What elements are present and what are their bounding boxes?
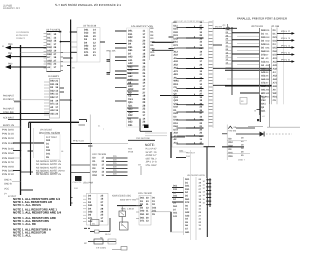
svg-text:ADDR DECODE LOGIC: ADDR DECODE LOGIC [112, 195, 131, 198]
diode D1 [260, 132, 265, 137]
svg-text:PIN 4: PIN 4 [281, 44, 291, 47]
wire y249.5 [112, 249, 121, 251]
svg-text:D02: D02 [46, 139, 51, 142]
svg-text:U4 6821: U4 6821 [48, 75, 60, 78]
wire bus to U4 y99.8 [21, 99, 50, 101]
svg-text:D61: D61 [173, 205, 178, 208]
wire y134 stub left [222, 133, 227, 135]
svg-text:NOTE 1. ALL RE: NOTE 1. ALL RE [13, 222, 36, 226]
svg-text:D31: D31 [185, 188, 190, 191]
svg-text:D61: D61 [174, 41, 179, 44]
connector J1 arrow 1 [5, 43, 21, 50]
wire y128 right [236, 127, 255, 129]
resistor R10 caret [228, 126, 232, 128]
wire dashed y134 [266, 133, 292, 135]
wire y93 dark [240, 92, 260, 94]
ic U4 outline [49, 78, 59, 118]
svg-text:J1 P&G: J1 P&G [3, 4, 12, 7]
svg-text:D71: D71 [140, 220, 145, 223]
wires to U20 gray [237, 35, 260, 37]
svg-text:RD1: RD1 [174, 83, 179, 86]
ic U2 inner divider [50, 32, 52, 71]
wire vertical x269.5 [269, 64, 271, 104]
solder dashes x84 [84, 227, 87, 229]
svg-text:PIN D6X: PIN D6X [2, 157, 15, 160]
svg-text:ADDR 0-7: ADDR 0-7 [146, 154, 158, 157]
wire bus to U2 y67 [21, 66, 47, 68]
wire J1 to bus y101.5 [14, 101, 21, 103]
connector J1 arrow 3 [5, 63, 21, 70]
svg-text:JP1 2-3: JP1 2-3 [146, 161, 158, 164]
wire bus to U2 y56.6 [21, 56, 47, 58]
ic U16 left rail [183, 177, 185, 235]
wire y152 gray [179, 151, 186, 153]
svg-text:D41: D41 [46, 153, 51, 156]
svg-text:NOTE 1. ALL RESISTORS ARE 1/4: NOTE 1. ALL RESISTORS ARE 1/4 [13, 211, 61, 215]
svg-text:A52: A52 [273, 75, 278, 78]
ic SW1 outline [172, 23, 209, 148]
connector J3 box [240, 98, 247, 105]
svg-text:A62: A62 [273, 78, 278, 81]
svg-text:D32: D32 [152, 206, 157, 209]
wire U5 to SW1 y50.3 [152, 49, 174, 51]
svg-text:RN1 10K: RN1 10K [107, 49, 117, 52]
wire vertical x207 lower [206, 207, 208, 237]
junction dot x70.6 y100 [70, 99, 72, 101]
svg-text:PB2: PB2 [8, 63, 13, 66]
ic U5 internal net wires [127, 65, 139, 67]
svg-text:A72: A72 [174, 70, 179, 73]
svg-text:U3 74LS138: U3 74LS138 [83, 25, 97, 28]
svg-text:NOTE 1. ALL RESIS: NOTE 1. ALL RESIS [13, 203, 41, 207]
bus ticks x72 [71, 197, 73, 199]
svg-text:VCC: VCC [4, 188, 9, 191]
svg-text:CA2 CTL: CA2 CTL [73, 181, 83, 184]
ic U20 left rail [259, 28, 261, 115]
svg-text:SCHEMATIC 1 OF 2: SCHEMATIC 1 OF 2 [3, 7, 21, 10]
wire y134 [236, 133, 260, 135]
wire vertical x171 upper [170, 132, 172, 158]
svg-text:SEE TBL 2: SEE TBL 2 [146, 157, 158, 160]
ic U2 outline [47, 32, 61, 72]
ic U21 left rail [271, 28, 273, 105]
wire y131.3 [140, 130, 152, 132]
ic U5 outline [127, 28, 149, 127]
svg-text:PIN D7X: PIN D7X [2, 161, 15, 164]
connector stack rung 1 [206, 179, 211, 181]
svg-text:CK1: CK1 [261, 103, 266, 106]
svg-text:N3 SIGNAL NOTE LN: N3 SIGNAL NOTE LN [36, 170, 61, 173]
wire stub y150 [13, 150, 21, 152]
wire y205.6 [117, 205, 142, 207]
svg-text:D31: D31 [173, 195, 178, 198]
wire rail x283.5 [283, 30, 285, 104]
svg-text:RD1: RD1 [266, 96, 271, 99]
svg-text:D01: D01 [185, 178, 190, 181]
ic U22 left rail [226, 125, 228, 161]
connector P1 arrow 1 [277, 30, 295, 35]
svg-text:D21: D21 [93, 164, 98, 167]
wire bus horizontal y122.3 [29, 121, 79, 123]
svg-text:A61: A61 [174, 67, 179, 70]
wire bus vertical x232 [231, 27, 233, 95]
wire vertical x207 upper [206, 147, 208, 179]
wire tick y65.6 [67, 65, 71, 67]
ic U11 pin stubs left [83, 195, 86, 197]
wire horizontal y140 right [128, 139, 155, 141]
svg-text:A42: A42 [174, 60, 179, 63]
wire gray y52.5 [21, 52, 71, 54]
ic U16 left wires [172, 187, 184, 189]
svg-text:SW SET = ON: SW SET = ON [146, 151, 157, 154]
ic U11 inner divider [96, 194, 98, 225]
svg-text:PIN A0X: PIN A0X [2, 166, 15, 169]
svg-text:PHI2 CLK: PHI2 CLK [73, 139, 85, 142]
svg-text:CK1: CK1 [174, 89, 179, 92]
svg-text:Q11: Q11 [261, 110, 266, 113]
svg-text:8000-9FFF RW: 8000-9FFF RW [120, 198, 137, 201]
wire y147 dark [222, 146, 244, 148]
resistor R5 inline [90, 231, 95, 233]
connector stack rung 6 [206, 197, 211, 199]
svg-text:PULL-UP 4K7: PULL-UP 4K7 [146, 148, 158, 151]
junction dot x70.6 y32 [70, 31, 72, 33]
indicator LED1 dark box [75, 176, 82, 181]
svg-text:WR1: WR1 [174, 80, 180, 83]
svg-text:D41: D41 [152, 210, 157, 213]
wire to node y172 [21, 171, 34, 173]
wire U5 to SW1 y42.3 [152, 41, 174, 43]
wire vertical x140 [139, 119, 141, 132]
wire y241.5 [88, 241, 116, 243]
svg-text:D21: D21 [185, 185, 190, 188]
svg-text:PIN D5X: PIN D5X [2, 152, 15, 155]
ic SW1 pin stubs right [209, 21, 213, 23]
svg-text:D11: D11 [174, 24, 179, 27]
wire stub y143 [13, 142, 44, 144]
wire stub y190 [21, 189, 34, 191]
svg-text:J1 EXPANSION: J1 EXPANSION [16, 31, 29, 34]
svg-text:A81: A81 [185, 231, 190, 234]
ic U3 stubs left [71, 41, 77, 43]
wire bus vertical x70.6 [70, 20, 72, 207]
resistor array wires U10 right [106, 157, 128, 159]
ic U4 stub right y88 [60, 87, 64, 89]
svg-text:D62: D62 [174, 125, 179, 128]
svg-text:A02: A02 [174, 132, 179, 135]
connector J1 arrow 2 [5, 52, 21, 59]
wire rail x33.5 [33, 128, 35, 158]
wire stub y181 [12, 181, 21, 183]
svg-text:A82: A82 [273, 85, 278, 88]
connector stack rung 3 [206, 186, 211, 188]
wire vertical x213 [212, 20, 214, 128]
wire y137 right of x171 [171, 136, 185, 138]
svg-text:CS2 DECODE: CS2 DECODE [136, 137, 151, 140]
wire bus2 tick y151 [28, 150, 34, 152]
svg-text:CPU CTRL 74LS245: CPU CTRL 74LS245 [39, 131, 60, 135]
svg-text:R/W: R/W [128, 148, 132, 151]
svg-text:PIN 6: PIN 6 [281, 58, 291, 61]
junction blob top U2 [59, 31, 62, 33]
wire vertical x110 [109, 218, 111, 232]
terminal block dark x145 [144, 125, 149, 129]
svg-text:A01: A01 [273, 57, 278, 60]
capacitor C2 [107, 72, 111, 74]
crystal Y1 [119, 211, 126, 217]
wire bus vertical x30 [30, 122, 32, 175]
wire J1 to bus y127 [0, 126, 21, 128]
wire U16 bottom gray [170, 231, 184, 233]
connector stack rung 4 [206, 189, 211, 191]
svg-text:PIN 5: PIN 5 [281, 51, 291, 54]
wire y68 long [213, 67, 272, 69]
transistor Q1 box [91, 220, 100, 226]
svg-text:U20 74LS244: U20 74LS244 [251, 25, 264, 28]
svg-text:PB7 OUT: PB7 OUT [186, 151, 196, 154]
svg-text:A01: A01 [173, 212, 178, 215]
svg-text:A12: A12 [273, 61, 278, 64]
wire y86 long [225, 85, 272, 87]
svg-text:PARALLEL PRINTER PORT & DRIVER: PARALLEL PRINTER PORT & DRIVER [237, 17, 288, 21]
wire bus to U4 y119.5 [21, 119, 50, 121]
wire y133 gray [145, 132, 167, 134]
wire rung y172.5 [71, 172, 91, 174]
svg-text:PIN D3X: PIN D3X [2, 142, 15, 145]
svg-text:D22: D22 [174, 112, 179, 115]
connector stack rung 5 [206, 193, 211, 195]
junction dots bus1 arrows [20, 47, 22, 49]
capacitor C10 box [121, 247, 127, 251]
svg-text:D72: D72 [174, 44, 179, 47]
junction dot x60.5 y41.6 [60, 41, 62, 43]
wire rung y165 [71, 164, 91, 166]
svg-text:PIN D0X: PIN D0X [2, 129, 15, 132]
ic U15 stubs left [136, 198, 139, 200]
svg-text:LED1 PWR: LED1 PWR [83, 181, 93, 184]
wire y28.5 right [213, 28, 225, 30]
wire vertical x141 lower [140, 166, 142, 175]
svg-text:50 PIN EDGE: 50 PIN EDGE [16, 34, 28, 37]
svg-text:A81: A81 [174, 73, 179, 76]
svg-text:D12: D12 [229, 141, 234, 144]
svg-text:D51: D51 [273, 47, 278, 50]
wire y28.3 left [223, 27, 237, 29]
svg-text:N4 SIGNAL NOTE LN: N4 SIGNAL NOTE LN [36, 173, 61, 176]
connector stack rung 8 [206, 204, 211, 206]
svg-text:+5V EN: +5V EN [228, 130, 236, 133]
svg-text:GND A: GND A [4, 179, 12, 182]
svg-text:A32: A32 [185, 214, 190, 217]
svg-text:D11: D11 [173, 188, 178, 191]
svg-text:N2 SIGNAL NOTE LN: N2 SIGNAL NOTE LN [36, 166, 61, 169]
svg-text:A01: A01 [84, 54, 89, 57]
resistor R6 box [94, 239, 103, 244]
svg-text:D61: D61 [185, 198, 190, 201]
wire y52.3 bus to U3 [71, 51, 77, 53]
svg-text:D72: D72 [273, 54, 278, 57]
wire U15 right y211.8 [151, 211, 171, 213]
wire SW1 bottom right [204, 146, 216, 148]
svg-text:PIN D1X: PIN D1X [2, 173, 15, 176]
wire x269.5 foot [269, 104, 271, 127]
wire horizontal y143.5 gray [92, 143, 128, 145]
inverter bubble x228 [227, 27, 230, 30]
svg-text:D42: D42 [140, 210, 145, 213]
svg-text:Q22: Q22 [174, 99, 179, 102]
transistor Q2 column [259, 95, 261, 122]
connector P1 arrow 5 [277, 58, 295, 63]
svg-text:GND 7: GND 7 [238, 159, 246, 162]
wire vertical x90 to U11 [89, 144, 91, 194]
connector P1 arrow 3 [277, 44, 295, 49]
svg-text:PIN D2X: PIN D2X [2, 137, 15, 140]
wire J1 to bus y100 [13, 100, 21, 102]
svg-text:D31: D31 [273, 40, 278, 43]
ic U3 outline [77, 28, 100, 63]
tick x227.5 [227, 24, 229, 27]
wire y126.5 bottom left [248, 126, 263, 128]
svg-text:D72: D72 [185, 201, 190, 204]
wire U4 right to bus y100 [60, 99, 71, 101]
wire y70.3 long [225, 69, 272, 71]
svg-text:Q12: Q12 [174, 96, 179, 99]
ic U5 wire stubs left [115, 30, 127, 32]
junction dots bus1 [20, 150, 21, 151]
wire y45 right [213, 44, 222, 46]
wire bus to U3 y32 [71, 31, 77, 33]
svg-text:C9 100N: C9 100N [96, 247, 107, 250]
svg-text:NOTE 1. ALL: NOTE 1. ALL [13, 234, 31, 238]
wire y125 short [79, 124, 86, 126]
connector stack rung 2 [206, 182, 211, 184]
svg-text:PA1 INPUT: PA1 INPUT [3, 98, 14, 101]
svg-text:U21 1488: U21 1488 [271, 25, 280, 28]
svg-text:D52: D52 [93, 174, 98, 177]
svg-text:D31: D31 [128, 124, 133, 127]
wire y135.8 gray [145, 135, 167, 137]
wire rail x149.5 [149, 27, 151, 61]
wire y125.8 bottom right [267, 126, 300, 128]
svg-text:XTAL 1MHZ: XTAL 1MHZ [146, 164, 158, 167]
svg-text:D41: D41 [229, 152, 234, 155]
svg-text:D42: D42 [93, 171, 98, 174]
wire vertical x110 [109, 50, 111, 73]
svg-text:OSC 1.8432: OSC 1.8432 [121, 207, 135, 210]
svg-text:PIN D4X: PIN D4X [2, 148, 15, 151]
svg-text:RD1: RD1 [273, 96, 278, 99]
svg-text:U2 74LS373: U2 74LS373 [46, 28, 61, 31]
svg-text:A22: A22 [185, 211, 190, 214]
ic U3 pin stub right y42 [100, 41, 105, 43]
wire horizontal y143.5 [71, 143, 92, 145]
ic U15 outline [139, 195, 151, 225]
svg-text:A52: A52 [174, 63, 179, 66]
resistor R7 box [108, 239, 116, 244]
wire J1 to bus y113 [0, 113, 21, 115]
wire vertical x90 upper [89, 115, 91, 144]
svg-text:A71: A71 [273, 82, 278, 85]
svg-text:CONN P2: CONN P2 [16, 37, 26, 40]
ic U4 stub right y92 [60, 91, 64, 93]
svg-text:D21: D21 [174, 28, 179, 31]
wire y79 gray [227, 78, 260, 80]
svg-text:D62: D62 [273, 50, 278, 53]
connector stack rung 7 [206, 200, 211, 202]
wire bus J1 vertical [20, 45, 22, 195]
svg-text:N1 SIGNAL NOTE LN: N1 SIGNAL NOTE LN [36, 163, 61, 166]
wire bus to U2 y47.6 [21, 47, 47, 49]
svg-text:U16 74LS374 LATCH: U16 74LS374 LATCH [187, 174, 205, 177]
svg-text:NOTE:: NOTE: [145, 143, 155, 147]
svg-text:D21: D21 [273, 36, 278, 39]
svg-text:A12: A12 [174, 50, 179, 53]
decode table outline [45, 135, 61, 160]
svg-text:WR: WR [266, 92, 270, 95]
wire y153.5 gray [227, 153, 250, 155]
wire y119.5 hook [79, 119, 87, 121]
svg-text:D72: D72 [174, 128, 179, 131]
svg-text:IRQ EN: IRQ EN [215, 25, 222, 28]
wires to U20 dark [232, 32, 260, 34]
wire rail x190 long [190, 150, 192, 240]
capacitor C1 [107, 59, 111, 61]
svg-text:ACK INPUT: ACK INPUT [3, 116, 14, 119]
svg-text:D61: D61 [140, 216, 145, 219]
ic SW1 stub left y48.5 [169, 48, 174, 50]
svg-text:A32: A32 [273, 68, 278, 71]
svg-text:U10 74LS06: U10 74LS06 [92, 153, 107, 156]
svg-text:R5 1K: R5 1K [105, 233, 111, 236]
wire stub y170 [13, 170, 21, 172]
svg-text:PB0: PB0 [8, 43, 13, 46]
svg-text:PIN 3: PIN 3 [281, 37, 291, 40]
svg-text:BUF TABLE: BUF TABLE [46, 136, 57, 139]
svg-text:D01: D01 [173, 185, 178, 188]
wire y58 to bus [63, 57, 73, 59]
wire bus to U4 y113.5 [21, 113, 50, 115]
connector stubs left x225 [226, 29, 233, 31]
ic U2 stubs right [61, 52, 64, 54]
ic U16 right rail [195, 177, 197, 240]
svg-text:U15 74LS00: U15 74LS00 [138, 192, 153, 195]
svg-text:D32: D32 [174, 31, 179, 34]
wire Y1 to C5 [121, 217, 123, 223]
svg-text:S-T BUS 65C02 PARALLEL I/O INT: S-T BUS 65C02 PARALLEL I/O INTERFACE 2.1 [55, 3, 121, 7]
wire into SW1 y95.5 [160, 95, 186, 97]
svg-text:IRQB: IRQB [128, 151, 134, 154]
svg-text:D51: D51 [229, 155, 234, 158]
wire y157 dark [176, 157, 186, 159]
wire vertical x171 lower [170, 212, 172, 232]
svg-text:D41: D41 [174, 34, 179, 37]
wire J1 to bus y119 [8, 119, 21, 121]
wire tick x90 y146 [88, 145, 93, 147]
svg-text:PIN 2: PIN 2 [281, 30, 291, 33]
svg-text:A22: A22 [273, 64, 278, 67]
svg-text:GND B: GND B [4, 183, 12, 186]
wire bus vertical x28.7 upper [28, 122, 30, 128]
ic U2 pin stubs left [44, 33, 47, 35]
wire y141 gray [227, 140, 247, 142]
wire y85 long [213, 84, 272, 86]
wire stub y158 [13, 157, 21, 159]
svg-text:N0 SIGNAL NOTE LN: N0 SIGNAL NOTE LN [36, 160, 61, 163]
svg-text:A11: A11 [173, 215, 178, 218]
ic SW1 stub left y37 [169, 36, 174, 38]
svg-text:PB1: PB1 [8, 52, 13, 55]
switch elements SW1 [177, 27, 187, 29]
